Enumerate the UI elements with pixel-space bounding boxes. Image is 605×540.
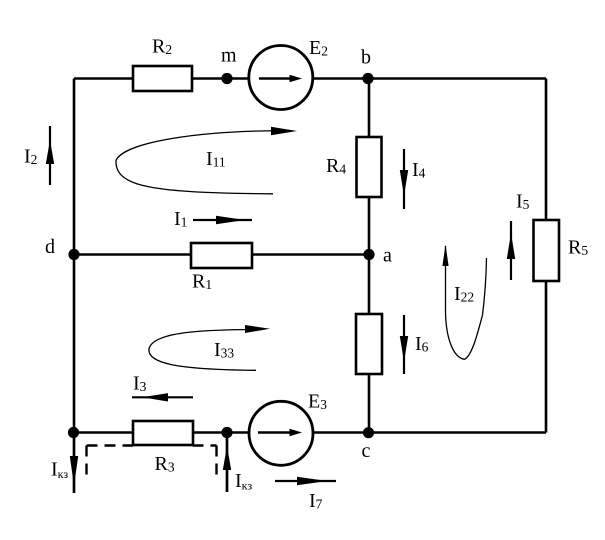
svg-text:m: m — [221, 45, 237, 67]
svg-text:a: a — [383, 245, 392, 267]
svg-text:b: b — [361, 47, 371, 69]
svg-text:c: c — [362, 440, 371, 462]
svg-text:d: d — [45, 236, 55, 258]
